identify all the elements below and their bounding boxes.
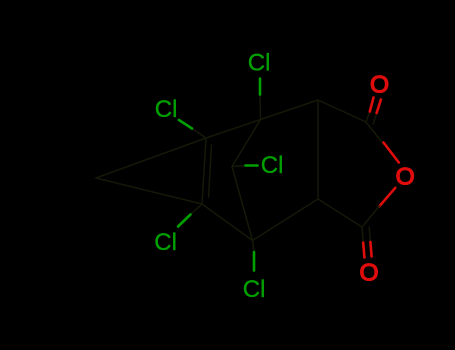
bond C4 to Cl bottom, carbon half — [253, 241, 255, 253]
bond C3p=O bottom double, inner line carbon half — [369, 227, 370, 242]
bond C3p=O bottom double, main line carbon half — [362, 227, 363, 243]
wire C6=C5 double bond inner line — [209, 145, 212, 197]
wire bridge apex P to C6 — [96, 138, 206, 178]
bond C6 to Cl upper-left, green half — [179, 120, 192, 129]
wire C6=C5 double bond main line — [202, 138, 206, 204]
wire C6-C1 — [206, 120, 261, 139]
svg-text:O: O — [396, 164, 415, 191]
wire bridge apex P to C5 — [96, 178, 202, 204]
wire C5-C4 — [202, 204, 253, 241]
wire C1-C2 — [261, 100, 319, 120]
bond C5 to Cl lower-left, green half — [178, 215, 191, 227]
svg-text:O: O — [370, 72, 389, 99]
bond C1 to Cl top, green half — [259, 79, 262, 95]
bond C2p-O mid, carbon half — [366, 122, 384, 144]
wire C3-C4 — [253, 199, 319, 241]
bond C3p=O bottom double, inner line red half — [370, 242, 371, 257]
bond C3p=O bottom double, main line red half — [363, 243, 364, 258]
svg-text:Cl: Cl — [248, 50, 271, 77]
bond C4 to Cl bottom, green half — [253, 252, 256, 271]
bond C2p=O top double, inner line carbon half — [373, 113, 376, 124]
bond C6 to Cl upper-left, carbon half — [192, 129, 206, 139]
wire C1-Cv bridge — [232, 120, 261, 167]
bond C2p=O top double, main line carbon half — [366, 112, 370, 123]
bond C2p=O top double, main line red half — [370, 98, 374, 112]
bond O mid-C3p, red half — [379, 188, 395, 207]
bond C5 to Cl lower-left, carbon half — [191, 204, 203, 215]
bond O mid-C3p, carbon half — [362, 206, 380, 227]
bond Cv to Cl middle, carbon half — [232, 166, 246, 167]
wire Cv-C4 bridge — [232, 167, 253, 241]
bond C1 to Cl top, carbon half — [259, 95, 262, 120]
wire C2-C2p — [318, 100, 366, 122]
svg-text:Cl: Cl — [154, 229, 177, 256]
wire C2-C3 — [317, 100, 319, 199]
bond Cv to Cl middle, green half — [246, 164, 258, 167]
bond C2p-O mid, red half — [384, 143, 399, 163]
svg-text:Cl: Cl — [155, 96, 178, 123]
svg-text:Cl: Cl — [243, 276, 266, 303]
svg-text:O: O — [359, 260, 378, 287]
wire C3-C3p — [318, 199, 362, 227]
bond C2p=O top double, inner line red half — [377, 100, 381, 114]
svg-text:Cl: Cl — [261, 152, 284, 179]
